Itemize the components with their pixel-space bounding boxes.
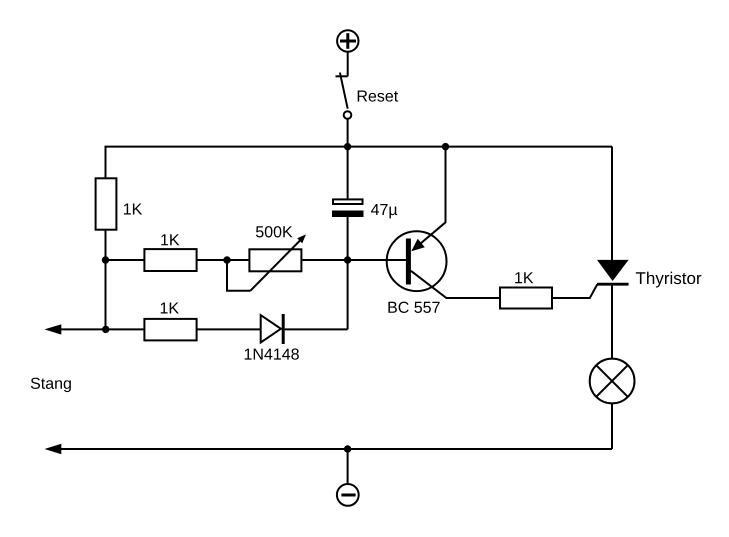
wire plus terminal to switch [347, 52, 349, 77]
wire emitter to top bus [445, 147, 447, 223]
transistor Q1 collector wire [411, 271, 499, 298]
label 1K (R3) [515, 272, 533, 283]
label Stang [31, 378, 71, 392]
junction dot top bus / emitter [442, 143, 449, 150]
wire capacitor down center rail [347, 217, 349, 329]
battery plus terminal [337, 30, 358, 51]
wire bottom node to minus terminal [347, 449, 349, 484]
junction dot lower row left [102, 326, 109, 333]
label BC 557 [388, 302, 439, 313]
wire diode to center rail [285, 328, 348, 330]
wire top bus to capacitor [347, 147, 349, 199]
diode D1 cathode bar [282, 314, 285, 344]
wire R1 bottom down left rail [105, 230, 107, 330]
wire top bus [106, 147, 613, 179]
junction dot top bus / reset [344, 143, 351, 150]
capacitor C1 bottom plate [332, 211, 364, 218]
wire R4 to diode [198, 328, 261, 330]
wire bottom bus [48, 448, 612, 450]
label Thyristor [636, 272, 701, 288]
resistor R4 1K (lower row) [144, 319, 196, 341]
junction dot mid row left [102, 256, 109, 263]
wire lamp to bottom bus [611, 404, 613, 449]
lamp L1 [590, 359, 635, 404]
junction dot bottom bus [344, 445, 351, 452]
potentiometer arrow [250, 234, 306, 290]
label 47µ [371, 204, 397, 218]
junction dot mid row pot wiper [223, 256, 230, 263]
switch S1 (Reset) [336, 73, 352, 119]
wire thyristor cathode to lamp [611, 286, 613, 359]
transistor Q1 BC557 circle [387, 231, 447, 291]
resistor R1 1K (vertical) [96, 178, 117, 229]
wire gate resistor to thyristor gate [553, 284, 597, 298]
thyristor anode triangle [597, 260, 629, 281]
transistor Q1 base bar [406, 239, 411, 285]
transistor Q1 emitter with arrow [411, 222, 445, 251]
potentiometer P1 500K body [249, 249, 301, 271]
arrow bottom bus left [45, 444, 62, 454]
potentiometer wiper wire [227, 260, 250, 291]
battery minus terminal [337, 484, 359, 506]
junction dot mid row center [344, 256, 351, 263]
diode D1 triangle [261, 315, 281, 342]
label 1K (R2) [161, 234, 179, 245]
wire switch to top bus [347, 119, 349, 147]
label Reset [358, 90, 398, 101]
label 500K [256, 226, 293, 237]
wire mid row left [106, 259, 145, 261]
wire pot to transistor base [302, 259, 406, 261]
resistor R3 1K (gate) [500, 288, 552, 309]
label 1K (R1) [124, 203, 142, 214]
wire lower row left [48, 328, 144, 330]
label 1K (R4) [161, 302, 179, 313]
thyristor cathode bar [597, 283, 629, 286]
wire thyristor anode [611, 147, 613, 261]
wire R2 to node [198, 259, 249, 261]
capacitor C1 top plate [333, 199, 363, 204]
arrow lower row left (Stang) [45, 324, 62, 334]
label 1N4148 [245, 348, 299, 359]
resistor R2 1K (mid row) [144, 249, 196, 271]
